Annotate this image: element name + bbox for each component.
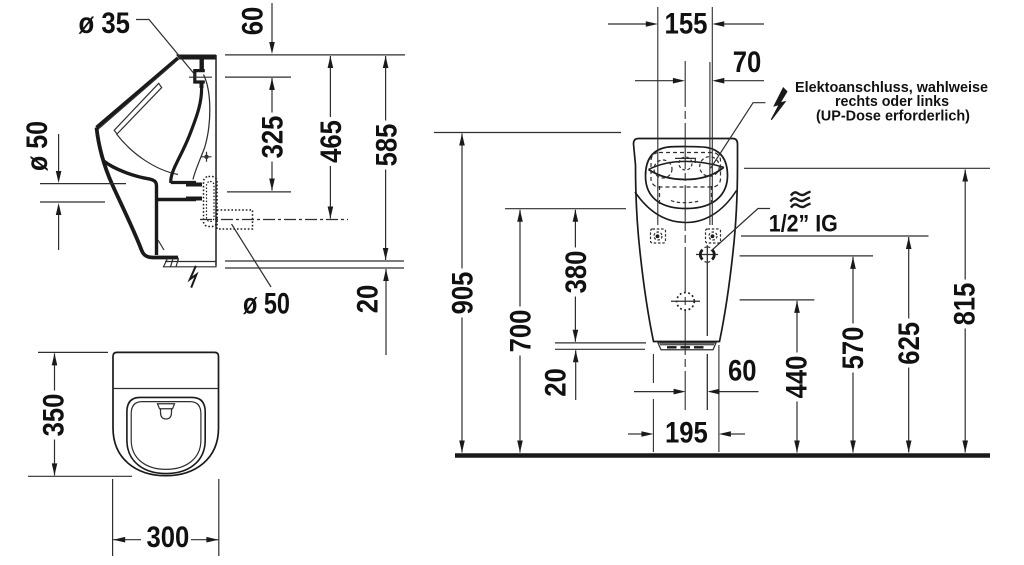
reference line 570 top xyxy=(740,255,873,257)
front view: dashed center detail xyxy=(679,157,692,170)
top view: spreader cup xyxy=(158,404,175,419)
svg-text:20: 20 xyxy=(540,368,573,397)
top view: back panel line xyxy=(113,388,219,390)
svg-text:700: 700 xyxy=(505,310,538,353)
svg-text:ø 50: ø 50 xyxy=(243,288,290,321)
dimension 20 (side bottom) xyxy=(352,269,389,355)
extension line 70 right xyxy=(709,62,711,225)
dimension 195 xyxy=(628,417,745,450)
side view: drain spigot lower nub xyxy=(186,197,202,201)
side view: dotted flange inner pill xyxy=(207,182,215,222)
svg-text:300: 300 xyxy=(147,521,190,554)
front view: foot shade band xyxy=(660,344,714,346)
front view: rim outer xyxy=(646,147,728,209)
svg-text:570: 570 xyxy=(837,327,870,370)
front view: outlet cross horizontal xyxy=(671,300,700,302)
reference line spud center (325 top) xyxy=(225,76,291,78)
svg-text:815: 815 xyxy=(949,283,982,326)
top view: bowl outer outline xyxy=(127,397,205,473)
svg-text:20: 20 xyxy=(352,285,385,314)
side view: bottom drain lip xyxy=(158,240,216,267)
extension line 195 right xyxy=(718,345,720,452)
extension line left 155 xyxy=(657,7,659,225)
svg-text:ø 50: ø 50 xyxy=(21,121,54,171)
reference line 20 lower (front) xyxy=(555,348,645,350)
front view: foot grate dashes xyxy=(667,346,707,348)
svg-text:465: 465 xyxy=(315,120,348,163)
reference line 625 top xyxy=(741,235,929,237)
reference line top (585/465/60 upper) xyxy=(225,54,405,56)
side view: outlet pipe centerline dash-dot xyxy=(200,219,348,221)
front view: rim lens upper arc xyxy=(649,161,724,169)
reference line 815 top xyxy=(744,167,990,169)
leader ø35 xyxy=(136,20,196,77)
reference line 350 top xyxy=(38,351,108,353)
svg-text:380: 380 xyxy=(560,251,593,294)
side view: inlet spud block xyxy=(195,71,205,82)
dimension 700 xyxy=(505,210,538,453)
dimension 625 xyxy=(893,237,926,453)
svg-text:1/2” IG: 1/2” IG xyxy=(769,211,838,238)
reference line bottom lower (20) xyxy=(225,267,404,269)
svg-text:60: 60 xyxy=(728,355,757,388)
dimension 380 xyxy=(560,210,593,342)
dimension 325 xyxy=(257,78,290,191)
side view: wall back line xyxy=(215,55,217,266)
front view: sensor window tick xyxy=(675,158,695,163)
water waves symbol xyxy=(790,192,810,208)
side view: back S-curve (sump back) xyxy=(171,85,202,183)
side view: drain spigot upper nub xyxy=(186,183,202,187)
side view: bowl bottom shelf xyxy=(157,198,197,201)
side view: sloped top face xyxy=(97,58,179,128)
side view: bowl interior thin curve xyxy=(117,134,179,175)
svg-text:350: 350 xyxy=(38,394,71,437)
label ø50 (bottom) with leader xyxy=(232,224,291,321)
dimension ø50 (left) xyxy=(21,121,126,250)
front view: dashed arc below lens xyxy=(671,201,700,203)
dimension 905 xyxy=(447,134,480,453)
front view: mounting hole left xyxy=(651,229,666,243)
front view: dashed circle left xyxy=(654,160,672,178)
svg-text:ø 35: ø 35 xyxy=(79,7,131,40)
side view: crosshair mark xyxy=(202,152,212,162)
svg-text:195: 195 xyxy=(665,417,708,450)
side view: inlet spud pipe xyxy=(199,59,203,71)
center line xyxy=(684,61,686,410)
svg-text:60: 60 xyxy=(237,7,270,36)
reference line bottom upper (585 bottom) xyxy=(225,260,404,262)
front view: body outline xyxy=(634,139,738,342)
front view: floor line xyxy=(455,453,990,458)
front view: rim lens lower arc xyxy=(649,167,724,179)
side view: spud below stub xyxy=(200,82,204,88)
reference line 20 upper (front) xyxy=(555,342,646,344)
reference line 440 top xyxy=(740,299,815,301)
side view: back panel thin S-curve xyxy=(193,75,210,180)
svg-text:155: 155 xyxy=(665,8,708,41)
front view: dashed electronics rect xyxy=(651,153,721,188)
top view: body outline xyxy=(113,352,219,475)
dimension 350 xyxy=(38,353,71,475)
front view: mounting hole right xyxy=(706,229,721,243)
front view: dashed verticals below smile xyxy=(660,186,712,204)
side view: dotted horizontal outlet pipe xyxy=(217,210,253,229)
dimension 60 (front bottom) xyxy=(634,355,759,395)
dimension 300 xyxy=(113,479,219,556)
dimension 155 xyxy=(608,8,764,41)
svg-text:905: 905 xyxy=(447,272,480,315)
svg-text:70: 70 xyxy=(733,46,762,79)
side view: small lightning bolt xyxy=(190,266,197,288)
lightning bolt (electrical) xyxy=(771,88,787,120)
dimension 440 xyxy=(781,301,814,453)
leader electrical xyxy=(711,103,766,169)
svg-text:(UP-Dose erforderlich): (UP-Dose erforderlich) xyxy=(816,108,970,124)
dimension 60 (side) xyxy=(237,3,275,54)
side view: front outer edge xyxy=(97,128,179,258)
front view: outlet dashed circle xyxy=(677,293,695,311)
reference line 700 xyxy=(505,208,626,210)
side view: spud center line xyxy=(189,76,212,78)
reference line 325 bottom xyxy=(227,191,291,193)
extension line 195 left xyxy=(652,354,654,452)
svg-text:585: 585 xyxy=(370,124,403,167)
svg-text:440: 440 xyxy=(781,356,814,399)
side view: dotted outlet flange xyxy=(204,177,218,227)
side view: upper drain shelf xyxy=(171,181,196,184)
dimension 815 xyxy=(949,170,982,453)
front view: shell curve under rim xyxy=(635,191,737,223)
side view: rim slot parallelogram xyxy=(114,83,162,134)
side view: inner surface line under slope xyxy=(98,63,175,129)
dimension 20 (front) xyxy=(540,350,579,400)
label 1/2" IG with leader xyxy=(711,209,838,252)
dimension 465 xyxy=(315,56,348,219)
side view: bowl inner front curve xyxy=(103,161,157,256)
svg-text:625: 625 xyxy=(893,322,926,365)
reference line top 905 xyxy=(434,132,621,134)
top view: bowl inner outline xyxy=(131,402,201,470)
svg-text:325: 325 xyxy=(257,116,290,159)
dimension 70 xyxy=(635,46,764,84)
extension line right 155 xyxy=(711,7,713,225)
front view: water inlet nozzle cross xyxy=(696,245,718,410)
dimension 585 xyxy=(370,56,403,260)
reference line 350 bottom xyxy=(28,475,132,477)
front view: dashed circle right xyxy=(700,157,720,177)
side view: top rim section bar xyxy=(176,55,216,60)
dimension 570 xyxy=(837,257,870,453)
front view: foot outline xyxy=(658,343,716,350)
